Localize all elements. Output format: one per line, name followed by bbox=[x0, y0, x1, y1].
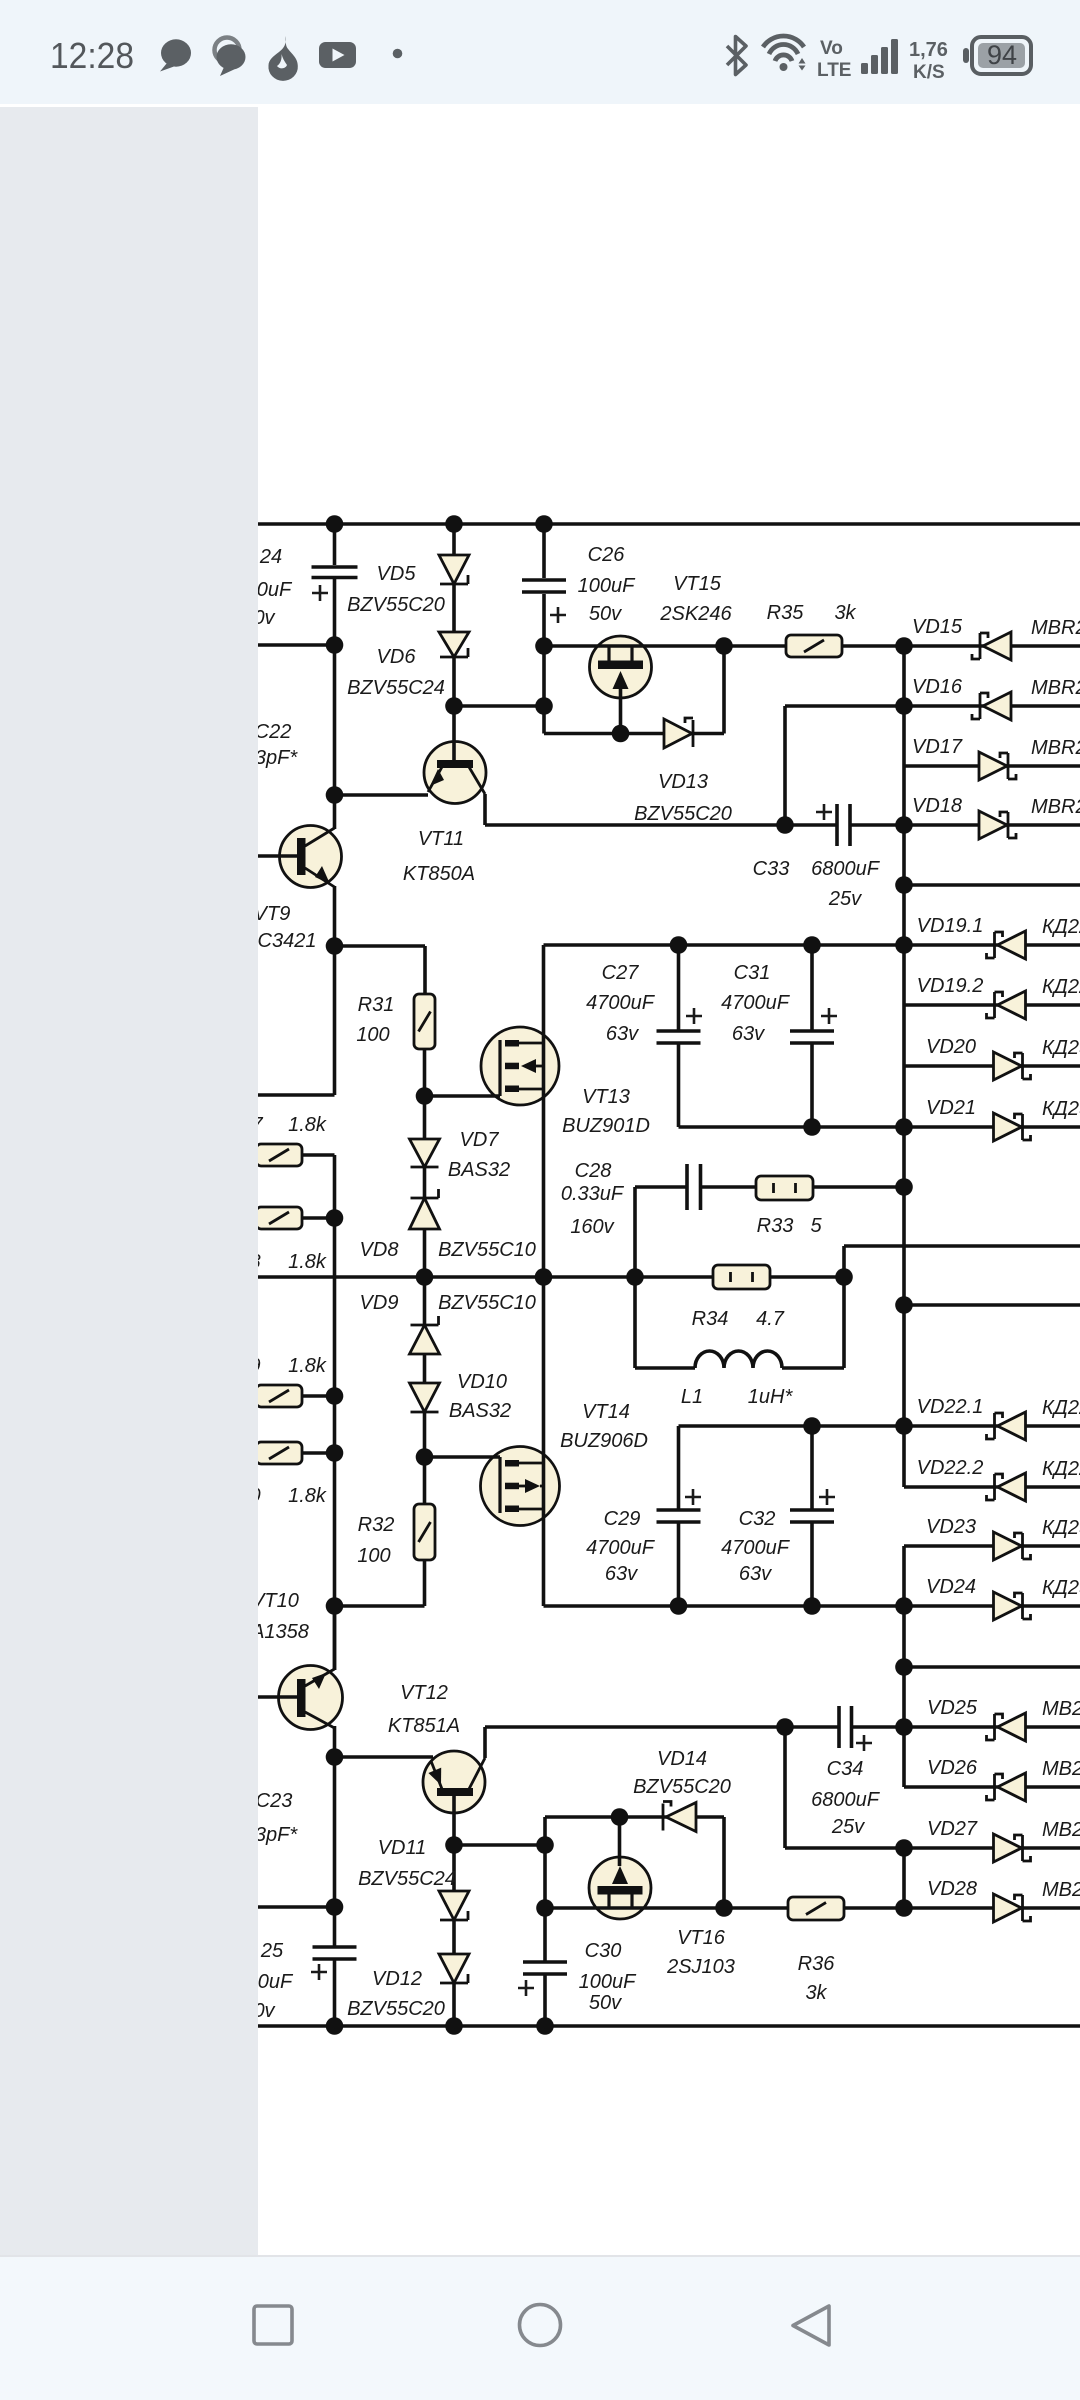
svg-text:MB25: MB25 bbox=[1042, 1698, 1080, 1720]
wifi icon bbox=[763, 36, 804, 61]
junction VT14 gate node bbox=[416, 1448, 434, 1466]
svg-text:1uH*: 1uH* bbox=[748, 1386, 794, 1408]
transistor VT13 internals bbox=[500, 1040, 544, 1096]
diode VD21 bbox=[994, 1113, 1031, 1141]
wire VD21 row bbox=[904, 1125, 1080, 1129]
wire C29 top lead bbox=[677, 1426, 681, 1510]
junction bus VD16 bbox=[895, 697, 913, 715]
svg-text:MBR25: MBR25 bbox=[1031, 796, 1080, 818]
wire VD26 row bbox=[904, 1785, 1080, 1789]
wire VT9 emitter column bottom bbox=[333, 886, 337, 1095]
wire VT15 source row bbox=[544, 732, 724, 736]
svg-text:12:28: 12:28 bbox=[50, 35, 134, 76]
wire VT9 base bbox=[258, 854, 298, 858]
wire VT9 emitter column top bbox=[333, 579, 337, 829]
diode VD26 bbox=[987, 1773, 1026, 1801]
svg-text:BZV55C20: BZV55C20 bbox=[633, 1776, 731, 1798]
diode VD24 bbox=[994, 1592, 1031, 1620]
svg-text:BZV55C20: BZV55C20 bbox=[347, 1998, 445, 2020]
wire VD14 row bbox=[545, 1815, 724, 1819]
svg-text:VT9: VT9 bbox=[254, 903, 291, 925]
notif icon chat bubbles bbox=[215, 38, 246, 77]
svg-text:C27: C27 bbox=[602, 962, 640, 984]
svg-text:VD22.1: VD22.1 bbox=[917, 1396, 984, 1418]
svg-text:MBR25: MBR25 bbox=[1031, 617, 1080, 639]
nav back button bbox=[793, 2306, 829, 2345]
wire R36 row bbox=[724, 1906, 904, 1910]
diode VD27 bbox=[994, 1834, 1031, 1862]
svg-text:КД25: КД25 bbox=[1042, 1098, 1080, 1120]
wire VT13 gate bbox=[425, 1094, 501, 1098]
svg-text:VD28: VD28 bbox=[927, 1878, 977, 1900]
svg-text:C32: C32 bbox=[739, 1508, 776, 1530]
svg-text:1.8k: 1.8k bbox=[288, 1485, 327, 1507]
svg-text:4700uF: 4700uF bbox=[586, 1537, 656, 1559]
svg-text:6800uF: 6800uF bbox=[811, 1789, 881, 1811]
svg-text:C31: C31 bbox=[734, 962, 771, 984]
wire right bus lower bbox=[902, 1848, 906, 1908]
wire R31 drop bbox=[423, 946, 427, 994]
wire C31 top lead bbox=[810, 945, 814, 1031]
svg-text:3k: 3k bbox=[834, 602, 856, 624]
wire VD19.2 row bbox=[904, 1003, 1080, 1007]
wire VT11 collector rail bbox=[485, 823, 837, 827]
wire C34 drop bbox=[783, 1727, 787, 1848]
notif icon chat bubble bbox=[160, 39, 191, 71]
wire VD11 VD12 gap bbox=[452, 1920, 456, 1954]
svg-text:BZV55C10: BZV55C10 bbox=[438, 1292, 536, 1314]
svg-text:VT12: VT12 bbox=[400, 1682, 448, 1704]
svg-text:0.33uF: 0.33uF bbox=[561, 1183, 625, 1205]
wifi traffic arrows bbox=[799, 58, 806, 71]
svg-text:4.7: 4.7 bbox=[756, 1308, 785, 1330]
wire VD25 row bbox=[904, 1725, 1080, 1729]
wire R30 lead bbox=[302, 1451, 335, 1455]
bluetooth icon bbox=[727, 37, 746, 75]
junction VT12 base node bbox=[445, 1836, 463, 1854]
junction bottom rail VD12 bbox=[445, 2017, 463, 2035]
svg-text:KT850A: KT850A bbox=[403, 863, 475, 885]
nav circle button bbox=[520, 2305, 561, 2346]
transistor VT15 internals bbox=[598, 646, 643, 689]
svg-text:VD22.2: VD22.2 bbox=[917, 1457, 984, 1479]
junction VT15 source bbox=[612, 725, 630, 743]
svg-text:BUZ906D: BUZ906D bbox=[560, 1430, 648, 1452]
polarity C32 bbox=[819, 1489, 835, 1505]
wire VT11 base lead bbox=[452, 706, 456, 760]
resistor R29 body bbox=[256, 1385, 302, 1407]
wire C33 to bus bbox=[850, 823, 904, 827]
svg-text:100: 100 bbox=[356, 1024, 389, 1046]
svg-text:VD9: VD9 bbox=[360, 1292, 399, 1314]
wire R33 to bus bbox=[813, 1185, 904, 1189]
svg-text:VD7: VD7 bbox=[460, 1129, 500, 1151]
wire VT12 node to C30 bbox=[543, 1845, 547, 1962]
svg-text:25: 25 bbox=[260, 1940, 284, 1962]
junction VT13 gate node bbox=[416, 1087, 434, 1105]
diode VD22.1 bbox=[987, 1412, 1026, 1440]
polarity C29 bbox=[685, 1489, 701, 1505]
svg-text:VD8: VD8 bbox=[360, 1239, 399, 1261]
svg-text:3pF*: 3pF* bbox=[255, 1824, 298, 1846]
wire R28 lead bbox=[302, 1216, 335, 1220]
junction rail zobel bbox=[626, 1268, 644, 1286]
wire C25 tap to edge bbox=[258, 1905, 335, 1909]
junction R36 left bbox=[715, 1899, 733, 1917]
wire VD7 VD8 gap bbox=[423, 1167, 427, 1198]
junction bottom rail C30 bbox=[536, 2017, 554, 2035]
wire C29 bottom lead bbox=[677, 1522, 681, 1606]
junction rail R34 right bbox=[835, 1268, 853, 1286]
transistor VT14 body bbox=[481, 1447, 560, 1526]
resistor R34 body bbox=[713, 1265, 770, 1289]
capacitor C24 bbox=[312, 567, 358, 578]
svg-text:MB25: MB25 bbox=[1042, 1879, 1080, 1901]
wire C32 top lead bbox=[810, 1426, 814, 1510]
wire L1 left riser bbox=[633, 1277, 637, 1368]
wire C27 C31 lower rail bbox=[679, 1125, 905, 1129]
capacitor C25 bbox=[313, 1947, 357, 1959]
junction bus 1667 bbox=[895, 1658, 913, 1676]
svg-text:100uF: 100uF bbox=[579, 1971, 637, 1993]
wire VD16 branch bbox=[785, 704, 904, 708]
svg-text:VT10: VT10 bbox=[251, 1590, 299, 1612]
wire bias resistor chain column bbox=[333, 1155, 337, 1670]
wire VD28 row bbox=[904, 1906, 1080, 1910]
wire VT9 to R31 link bbox=[335, 944, 426, 948]
nav bar background bbox=[0, 2256, 1080, 2400]
wire bottom supply rail bbox=[258, 2024, 1080, 2028]
capacitor C34 bbox=[839, 1706, 852, 1748]
diode VD6 zener bbox=[439, 632, 469, 657]
wire VD9 VD10 gap bbox=[423, 1354, 427, 1383]
wire output link row bbox=[844, 1244, 1080, 1248]
svg-text:R31: R31 bbox=[358, 994, 395, 1016]
junction R30 lead bbox=[326, 1444, 344, 1462]
junction bottom rail C25 bbox=[326, 2017, 344, 2035]
wire VT10 emitter column bbox=[333, 1726, 337, 1947]
diode VD20 bbox=[994, 1052, 1031, 1080]
wire C28 left lead bbox=[635, 1185, 687, 1189]
junction bus VD22.1 bbox=[895, 1417, 913, 1435]
diode VD17 bbox=[979, 752, 1016, 780]
transistor VT12 internals bbox=[428, 1758, 485, 1796]
svg-text:VD6: VD6 bbox=[377, 646, 417, 668]
wire VT11 emitter row bbox=[335, 793, 429, 797]
junction C33 left bbox=[776, 816, 794, 834]
svg-text:50v: 50v bbox=[589, 1992, 622, 2014]
svg-text:1.8k: 1.8k bbox=[288, 1355, 327, 1377]
svg-text:63v: 63v bbox=[606, 1023, 639, 1045]
wire VD19.1 row bbox=[904, 943, 1080, 947]
wire VT15 source lead bbox=[619, 686, 623, 734]
polarity C26 bbox=[550, 607, 566, 623]
left gray panel bbox=[0, 107, 258, 2256]
svg-text:R33: R33 bbox=[757, 1215, 794, 1237]
svg-text:VD17: VD17 bbox=[912, 736, 963, 758]
diode VD16 bbox=[972, 692, 1011, 720]
wire VD16 drop to C33 bbox=[783, 706, 787, 825]
diode VD5 zener bbox=[439, 555, 469, 584]
junction C31 bottom bbox=[803, 1118, 821, 1136]
svg-text:5: 5 bbox=[810, 1215, 822, 1237]
wire VD24 row bbox=[904, 1604, 1080, 1608]
svg-text:C3421: C3421 bbox=[258, 930, 317, 952]
capacitor C31 bbox=[790, 1031, 834, 1043]
wire VD14 down link bbox=[722, 1817, 726, 1908]
wire C27 top lead bbox=[677, 945, 681, 1031]
wire VD15 row bbox=[904, 644, 1080, 648]
svg-text:25v: 25v bbox=[828, 888, 862, 910]
wire VT10 collector column bbox=[333, 1606, 337, 1670]
wire R31 chain top bbox=[423, 1049, 427, 1139]
svg-text:VT11: VT11 bbox=[418, 828, 464, 850]
transistor VT16 body bbox=[589, 1857, 651, 1919]
diode VD8 zener bbox=[410, 1189, 440, 1229]
junction C26 bottom bbox=[535, 697, 553, 715]
svg-text:BZV55C24: BZV55C24 bbox=[347, 677, 445, 699]
diode VD25 bbox=[987, 1713, 1026, 1741]
svg-text:R36: R36 bbox=[798, 1953, 836, 1975]
transistor VT9 internals bbox=[297, 828, 335, 887]
diode VD14 zener bbox=[663, 1802, 696, 1832]
wire VD20 row bbox=[904, 1064, 1080, 1068]
wire C34 to bus bbox=[852, 1725, 905, 1729]
svg-text:BAS32: BAS32 bbox=[448, 1159, 510, 1181]
junction bus VD15 bbox=[895, 637, 913, 655]
svg-text:VD12: VD12 bbox=[372, 1968, 422, 1990]
transistor VT11 internals bbox=[428, 760, 485, 794]
diode VD9 zener bbox=[410, 1316, 440, 1354]
capacitor C26 bbox=[522, 580, 566, 592]
diode VD22.2 bbox=[987, 1473, 1026, 1501]
signal bars bbox=[861, 39, 898, 74]
notif icon flame bbox=[268, 36, 297, 81]
svg-text:2SJ103: 2SJ103 bbox=[666, 1956, 735, 1978]
wire VT12 collector rail bbox=[485, 1725, 839, 1729]
wire VD23 row bbox=[904, 1544, 1080, 1548]
transistor VT11 body bbox=[424, 742, 486, 804]
junction VT15 drain left bbox=[535, 637, 553, 655]
wire VD10 to gate node bbox=[423, 1412, 427, 1504]
junction R28 lead bbox=[326, 1209, 344, 1227]
wire C24 top lead bbox=[333, 524, 337, 565]
wire C32 bottom lead bbox=[810, 1522, 814, 1606]
svg-text:24: 24 bbox=[259, 546, 282, 568]
svg-text:K/S: K/S bbox=[913, 62, 945, 83]
junction R29 lead bbox=[326, 1387, 344, 1405]
junction VT12 collector C34 bbox=[776, 1718, 794, 1736]
transistor VT16 internals bbox=[598, 1866, 643, 1908]
wire VD27 row bbox=[904, 1846, 1080, 1850]
junction C25 tap bbox=[326, 1898, 344, 1916]
svg-text:VD21: VD21 bbox=[926, 1097, 976, 1119]
junction bus VD24 bbox=[895, 1597, 913, 1615]
junction VT9 emitter lower bbox=[326, 937, 344, 955]
svg-text:1,76: 1,76 bbox=[909, 39, 948, 61]
wire VD27 branch bbox=[785, 1846, 904, 1850]
svg-text:VT16: VT16 bbox=[677, 1927, 726, 1949]
junction bus 1305 bbox=[895, 1296, 913, 1314]
wire VD13 up link bbox=[722, 646, 726, 734]
svg-text:C33: C33 bbox=[753, 858, 790, 880]
junction rail VT13 source bbox=[535, 1268, 553, 1286]
svg-text:100uF: 100uF bbox=[578, 575, 636, 597]
diode VD19.1 bbox=[987, 931, 1026, 959]
resistor R35 body bbox=[786, 635, 842, 657]
svg-text:25v: 25v bbox=[831, 1816, 865, 1838]
svg-text:VD18: VD18 bbox=[912, 795, 962, 817]
wire VD17 row bbox=[904, 764, 1080, 768]
diode VD18 bbox=[979, 811, 1016, 839]
svg-text:КД25: КД25 bbox=[1042, 1517, 1080, 1539]
svg-text:BAS32: BAS32 bbox=[449, 1400, 511, 1422]
diode VD12 zener bbox=[439, 1954, 469, 1983]
wire R27 lead bbox=[302, 1153, 335, 1157]
wire VT12 base lead bbox=[452, 1796, 456, 1845]
junction VD13 top bbox=[715, 637, 733, 655]
svg-text:R35: R35 bbox=[767, 602, 805, 624]
wire C28 to R33 bbox=[701, 1185, 757, 1189]
wire negative cap top rail bbox=[679, 1424, 905, 1428]
svg-text:VD11: VD11 bbox=[378, 1837, 427, 1859]
junction bus VD27 bbox=[895, 1839, 913, 1857]
wire VT14 gate bbox=[425, 1455, 501, 1459]
svg-text:BZV55C24: BZV55C24 bbox=[358, 1868, 456, 1890]
svg-text:VD19.2: VD19.2 bbox=[917, 975, 984, 997]
junction C31 top bbox=[803, 936, 821, 954]
transistor VT9 body bbox=[280, 826, 342, 888]
wire VD22.1 row bbox=[904, 1424, 1080, 1428]
svg-text:4700uF: 4700uF bbox=[721, 1537, 791, 1559]
svg-text:LTE: LTE bbox=[817, 60, 851, 81]
diode VD11 zener bbox=[439, 1891, 469, 1920]
polarity C34 bbox=[856, 1735, 872, 1751]
svg-text:MBR25: MBR25 bbox=[1031, 677, 1080, 699]
svg-text:C22: C22 bbox=[255, 721, 292, 743]
capacitor C29 bbox=[657, 1510, 701, 1522]
svg-text:VD20: VD20 bbox=[926, 1036, 976, 1058]
wire C26 bottom column bbox=[542, 594, 546, 734]
svg-text:C34: C34 bbox=[827, 1758, 864, 1780]
resistor R27 body bbox=[256, 1144, 302, 1166]
junction bus VD25 bbox=[895, 1718, 913, 1736]
notif overflow dot bbox=[393, 49, 403, 59]
junction R33 bus bbox=[895, 1178, 913, 1196]
capacitor C28 bbox=[687, 1164, 701, 1210]
wire VD row at 1667 bbox=[904, 1665, 1080, 1669]
junction top rail C24 bbox=[326, 515, 344, 533]
wire VT12 up link bbox=[543, 1817, 547, 1845]
wire C25 bottom lead bbox=[333, 1959, 337, 2026]
junction VD6 node bbox=[445, 697, 463, 715]
capacitor C32 bbox=[790, 1510, 834, 1522]
svg-text:A1358: A1358 bbox=[250, 1621, 309, 1643]
junction C24 lower tap bbox=[326, 636, 344, 654]
battery icon bbox=[963, 37, 1031, 74]
wire zobel riser bbox=[633, 1187, 637, 1277]
svg-text:КД225: КД225 bbox=[1042, 976, 1080, 998]
svg-text:VD16: VD16 bbox=[912, 676, 963, 698]
diode VD19.2 bbox=[987, 991, 1026, 1019]
transistor VT14 internals bbox=[500, 1457, 544, 1513]
svg-text:VD15: VD15 bbox=[912, 616, 963, 638]
transistor VT12 body bbox=[423, 1751, 485, 1813]
svg-text:KT851A: KT851A bbox=[388, 1715, 460, 1737]
resistor R33 body bbox=[756, 1176, 813, 1200]
wire rail to VD9 bbox=[423, 1277, 427, 1325]
wire VT10 to VT12 link bbox=[335, 1755, 434, 1759]
svg-text:VD24: VD24 bbox=[926, 1576, 976, 1598]
wire C24 tap to edge bbox=[258, 643, 335, 647]
wire VT13 drain source column bbox=[542, 945, 546, 1606]
junction bus VD19.1 bbox=[895, 936, 913, 954]
svg-text:VD10: VD10 bbox=[457, 1371, 507, 1393]
wire VD8 to rail bbox=[423, 1229, 427, 1277]
wire VT10 base bbox=[258, 1695, 298, 1699]
svg-text:VT15: VT15 bbox=[673, 573, 722, 595]
polarity C27 bbox=[686, 1008, 702, 1024]
wire VT12 base link bbox=[454, 1843, 545, 1847]
svg-text:C30: C30 bbox=[585, 1940, 622, 1962]
svg-text:BZV55C10: BZV55C10 bbox=[438, 1239, 536, 1261]
wire VT16 source row bbox=[545, 1906, 724, 1910]
junction output tap bbox=[895, 876, 913, 894]
svg-text:BUZ901D: BUZ901D bbox=[562, 1115, 650, 1137]
svg-text:КД225: КД225 bbox=[1042, 916, 1080, 938]
svg-text:VD27: VD27 bbox=[927, 1818, 978, 1840]
svg-text:63v: 63v bbox=[739, 1563, 772, 1585]
wire right bus upper bbox=[902, 646, 906, 1487]
svg-text:MBR25: MBR25 bbox=[1031, 737, 1080, 759]
svg-text:VT14: VT14 bbox=[582, 1401, 630, 1423]
diode VD15 bbox=[972, 632, 1011, 660]
wire VT11 collector drop bbox=[483, 794, 487, 825]
svg-text:0uF: 0uF bbox=[257, 579, 293, 601]
wire R32 bottom lead bbox=[423, 1560, 427, 1606]
capacitor C33 bbox=[837, 804, 850, 846]
wire positive cap rail bbox=[544, 943, 905, 947]
wire left tap at 1095 bbox=[258, 1093, 335, 1097]
svg-text:100: 100 bbox=[357, 1545, 390, 1567]
wire negative cap lower rail bbox=[544, 1604, 905, 1608]
svg-text:КД225: КД225 bbox=[1042, 1397, 1080, 1419]
svg-text:63v: 63v bbox=[605, 1563, 638, 1585]
junction rail VD8 bbox=[416, 1268, 434, 1286]
svg-text:3k: 3k bbox=[805, 1982, 827, 2004]
wire C30 bottom lead bbox=[543, 1974, 547, 2026]
svg-text:63v: 63v bbox=[732, 1023, 765, 1045]
svg-text:VD5: VD5 bbox=[377, 563, 417, 585]
svg-text:94: 94 bbox=[987, 40, 1017, 70]
wire L1 left lead bbox=[635, 1366, 695, 1370]
svg-text:Vo: Vo bbox=[820, 38, 843, 59]
junction bus VD21 bbox=[895, 1118, 913, 1136]
wire VD row at 1305 bbox=[904, 1303, 1080, 1307]
transistor VT15 body bbox=[590, 636, 652, 698]
polarity C24 bbox=[312, 585, 328, 601]
resistor R32 body bbox=[414, 1504, 435, 1560]
junction C27 top bbox=[670, 936, 688, 954]
wire mid output rail bbox=[258, 1275, 844, 1279]
polarity C25 bbox=[311, 1964, 327, 1980]
svg-text:КД25: КД25 bbox=[1042, 1037, 1080, 1059]
svg-text:BZV55C20: BZV55C20 bbox=[634, 803, 732, 825]
svg-text:VD23: VD23 bbox=[926, 1516, 976, 1538]
svg-text:КД225: КД225 bbox=[1042, 1458, 1080, 1480]
wire VD5 VD6 gap bbox=[452, 584, 456, 632]
svg-text:3pF*: 3pF* bbox=[255, 747, 298, 769]
